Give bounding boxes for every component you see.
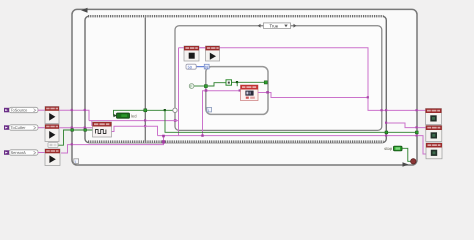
- boolean bus down and right (green): [165, 110, 417, 132]
- wire: icon1 output into loop (magenta): [59, 110, 89, 120]
- wire: subVI out to case-exit (magenta): [258, 93, 368, 98]
- tunnel dots on case/loop right edges for R1 wire: [381, 109, 383, 111]
- control terminal ToSource: [4, 107, 38, 112]
- svg-text:ToCutter: ToCutter: [11, 125, 27, 130]
- case subVI icon C1 (stop square): [184, 46, 199, 61]
- for loop (inner small loop): [206, 67, 268, 115]
- right subVI icon R2 (close): [426, 126, 442, 142]
- svg-text:SensorA: SensorA: [11, 150, 27, 155]
- svg-text:N: N: [205, 65, 208, 69]
- LED indicator: [113, 113, 137, 119]
- svg-text:led: led: [131, 114, 137, 119]
- tunnel through checkered bottom border (magenta): [162, 140, 165, 143]
- control terminal SensorA: [4, 150, 38, 155]
- wire terminal1 to icon1 (magenta): [38, 109, 45, 111]
- wire: bus into case (magenta): [89, 120, 179, 122]
- wire arrow on outer loop top border: [81, 8, 88, 13]
- wire: tunnel to comparison function (green, inside for loop): [208, 83, 227, 86]
- right subVI icon R3 (close): [426, 143, 442, 159]
- wire: numeric constant to N (blue): [196, 66, 204, 68]
- tunnel on for loop left edge (magenta): [205, 89, 208, 92]
- small terminal box between icon2 and icon3: [48, 143, 58, 148]
- diagram background: [0, 0, 474, 172]
- wire: stop to conditional terminal (green): [402, 148, 411, 161]
- wire junction (green): [236, 81, 238, 83]
- wire terminal2 to icon2 (magenta): [38, 127, 45, 129]
- junction at subVI input (magenta): [239, 89, 241, 91]
- wire: icon3 under-loop feed (magenta): [61, 136, 164, 153]
- case structure (True frame): [175, 26, 382, 131]
- wire: function output (green) to right tunnel with branch to subVI: [232, 81, 266, 83]
- stop boolean terminal: [384, 146, 402, 151]
- junction where for-loop wire meets vertical (magenta): [367, 96, 369, 98]
- green wire from small terminal up to VISA-config (left): [58, 130, 93, 145]
- vertical divider line: [144, 18, 146, 142]
- right subVI icon R1 (close): [426, 109, 442, 125]
- subVI icon 1 (open source): [45, 107, 59, 124]
- green tunnel on for loop left edge: [204, 85, 207, 88]
- loop conditional terminal: [411, 159, 416, 164]
- junction dots on bus: [162, 135, 165, 138]
- comparison function node: [226, 80, 232, 85]
- tunnel where bus enters case left edge (magenta): [174, 119, 177, 122]
- subVI icon 2 (open cutter): [45, 125, 59, 142]
- hollow tunnel on case left edge: [173, 108, 177, 112]
- boolean constant F: [189, 84, 194, 89]
- wire: icon2 output to VISA-config icon (magenta): [59, 127, 93, 129]
- boolean wire from case to LED (green): [114, 110, 176, 115]
- control terminal ToCutter: [4, 125, 38, 130]
- vertical VISA distribution inside case left (magenta): [178, 48, 180, 136]
- wire: F constant to for loop tunnel (green): [194, 85, 206, 87]
- iteration terminal i (for loop): [207, 107, 212, 112]
- tunnel on for loop right edge (magenta): [266, 91, 269, 94]
- svg-text:ToSource: ToSource: [11, 108, 29, 113]
- wire C1-C2 (magenta): [199, 47, 206, 49]
- iteration terminal i (outer loop): [74, 159, 79, 164]
- main bus to R3 (magenta): [158, 136, 427, 154]
- wire: drop to VISA-config icon (magenta): [91, 121, 94, 126]
- arrow on outer loop bottom border: [403, 162, 409, 166]
- inner while loop (checkered border): [85, 15, 386, 143]
- wire: branch down to subVI top (green): [236, 82, 238, 86]
- svg-text:stop: stop: [384, 146, 393, 151]
- case selector label "True": [258, 23, 297, 29]
- green tunnel square on divider: [144, 109, 147, 112]
- outer while loop: [72, 9, 417, 165]
- green tunnel on for loop right edge: [264, 81, 267, 84]
- subVI icon in for loop (VISA write): [241, 85, 259, 101]
- wire terminal3 to icon3 (magenta): [38, 152, 45, 154]
- tunnel dots on outer/inner left edges (magenta row1): [71, 109, 73, 111]
- svg-text:True: True: [270, 23, 279, 28]
- wire: bus riser into for loop (magenta): [203, 91, 241, 136]
- numeric constant 50: [186, 64, 196, 69]
- N count terminal: [204, 64, 209, 69]
- long VISA wire from case icons (magenta): [179, 48, 426, 111]
- VISA configure icon (waveform): [93, 122, 112, 137]
- green junction at x=165: [164, 109, 166, 111]
- svg-text:50: 50: [188, 65, 192, 69]
- divider tunnel dots: [144, 119, 146, 121]
- wire: VISA-config out to bus (magenta): [112, 126, 158, 135]
- case subVI icon C2 (play): [206, 46, 220, 61]
- wire: R2 feed (magenta): [386, 123, 426, 128]
- subVI icon 3 (open sensor): [45, 149, 60, 166]
